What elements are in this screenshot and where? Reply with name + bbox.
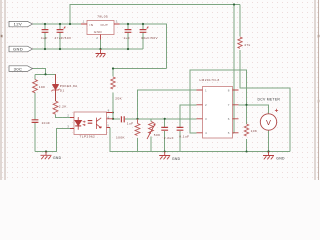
svg-text:1uF: 1uF: [124, 36, 131, 40]
svg-text:GND: GND: [172, 157, 181, 161]
junction (45.5,74.3): [44, 73, 46, 75]
svg-text:GND: GND: [13, 47, 23, 52]
junction (46,151.5): [45, 150, 47, 152]
wire 100R filter chain: [34, 74, 36, 151]
junction (128,49): [127, 48, 129, 50]
junction (60,24): [59, 23, 61, 25]
svg-text:100K: 100K: [116, 136, 126, 140]
capacitor C4 33uF/50V polarized: [140, 27, 149, 33]
resistor R4 100K: [135, 119, 140, 136]
junction (113,112.5): [112, 112, 114, 114]
wire 5V rail: [120, 24, 167, 69]
svg-text:30C: 30C: [14, 66, 23, 71]
opto phototransistor: [96, 118, 101, 129]
wire pin2 to 0.1uF chain: [180, 105, 197, 152]
wire opto pin5 to bottom rail: [110, 128, 290, 152]
junction (164.7,151.5): [164, 151, 166, 153]
svg-text:GND: GND: [53, 156, 62, 160]
ground symbol input: [41, 152, 52, 160]
svg-text:IN: IN: [90, 23, 94, 27]
wire 47k column to gnd: [240, 5, 290, 152]
svg-text:100: 100: [39, 85, 46, 89]
resistor R7 10K: [244, 124, 248, 136]
svg-text:12V: 12V: [14, 22, 23, 27]
ground symbol meter: [263, 152, 274, 160]
svg-text:10K: 10K: [251, 129, 258, 133]
capacitor C8 0.1uF: [177, 127, 184, 130]
capacitor C1 1uF: [42, 30, 49, 33]
wire 12V drop to pin8 and pin5: [233, 5, 235, 133]
wire C1 stubs: [44, 24, 46, 49]
svg-text:TLP2962: TLP2962: [80, 135, 96, 139]
svg-text:LM2917N-8: LM2917N-8: [200, 78, 220, 82]
capacitor C6 1uF coupling: [121, 116, 124, 122]
wire 5V feed left to opto pin8: [113, 69, 167, 119]
wire C4 stubs: [142, 24, 144, 49]
svg-text:V: V: [266, 118, 271, 127]
resistor R1 100: [33, 80, 38, 93]
junction (128,24): [127, 23, 129, 25]
svg-text:GND: GND: [94, 30, 103, 34]
wire zener to 2.2K to opto pin2: [56, 90, 71, 118]
wire C3 stubs: [127, 24, 129, 49]
svg-text:DCV METER: DCV METER: [258, 98, 281, 102]
svg-text:1uF: 1uF: [127, 122, 134, 126]
svg-text:P6KE6.8A: P6KE6.8A: [60, 84, 78, 88]
capacitor C5 10nF: [32, 120, 39, 123]
svg-text:GND: GND: [276, 157, 285, 161]
wire signal row to pin3: [113, 118, 197, 120]
IC U2 LM2917N-8: [197, 78, 239, 138]
wire opto pin3 return to gnd: [35, 129, 70, 152]
junction (246.5,104.8): [245, 104, 247, 106]
svg-text:33uF/50V: 33uF/50V: [141, 36, 159, 40]
regulator U1 78L05: [81, 14, 120, 40]
resistor R2 2.2K: [53, 101, 58, 114]
junction (45,49): [44, 48, 46, 50]
wire 100K stubs: [137, 138, 139, 152]
wires (green nets): [33, 5, 291, 152]
svg-text:0.1uF: 0.1uF: [179, 134, 189, 138]
svg-text:D1: D1: [60, 89, 65, 93]
capacitor C2 47uF/50V polarized: [57, 27, 66, 33]
svg-text:47uF/50V: 47uF/50V: [55, 36, 73, 40]
capacitor C7 2.2uF polarized: [161, 127, 168, 130]
input flag 30C: [9, 66, 33, 72]
svg-text:2.2uF: 2.2uF: [164, 136, 174, 140]
junction (234,4.5): [233, 3, 235, 5]
supply flag GND: [9, 46, 33, 52]
junction (246.5,151.5): [246, 151, 248, 153]
wire 2.2uF stubs: [164, 119, 166, 152]
wire 10K stubs: [246, 105, 248, 152]
frame borders: [1, 0, 318, 180]
wire GND rail: [33, 48, 144, 50]
wire pot stubs: [150, 119, 152, 152]
junction (268.5,151.5): [267, 150, 269, 152]
junction (100.5,49): [99, 48, 101, 50]
junction (164.7,118.8): [164, 118, 166, 120]
wire input flag node: [33, 69, 56, 80]
junction (70,24): [69, 23, 71, 25]
supply flag 12V: [9, 21, 33, 26]
svg-text:10nF: 10nF: [42, 121, 51, 125]
opto LED: [75, 117, 101, 130]
capacitor C3 1uF: [125, 30, 132, 33]
resistor R6 47k: [238, 37, 242, 48]
voltmeter M1: [260, 109, 278, 130]
svg-text:1uF: 1uF: [41, 36, 48, 40]
svg-text:2.2K: 2.2K: [59, 104, 68, 108]
wire 12V riser to top rail: [70, 5, 240, 25]
svg-text:20K: 20K: [115, 97, 122, 101]
svg-text:78L05: 78L05: [97, 14, 108, 18]
junction (137.5,118.8): [136, 118, 138, 120]
svg-text:50K: 50K: [154, 133, 161, 137]
optocoupler OK1 TLP2962: [67, 109, 113, 139]
junction (113,118.8): [112, 118, 114, 120]
zener diode D1 P6KE6.8A: [52, 74, 60, 101]
wire pin4 feedback loop over IC: [190, 70, 247, 133]
junction (60,49): [59, 48, 61, 50]
wire meter bottom rail: [268, 131, 270, 152]
potentiometer R5 50K: [147, 122, 155, 140]
resistor R3 20K: [112, 77, 114, 93]
junction (45,24): [44, 23, 46, 25]
wire C2 stubs: [59, 24, 61, 49]
ground symbol below regulator: [96, 49, 106, 57]
wire meter node: [239, 105, 269, 114]
ground symbol mid: [159, 152, 170, 160]
frame tick left: [1, 35, 3, 37]
junction (143,24): [142, 23, 144, 25]
frame tick right: [318, 35, 320, 37]
wire pin1 branch: [138, 90, 197, 119]
svg-text:47k: 47k: [244, 43, 250, 47]
wire regulator gnd drop: [100, 40, 102, 50]
svg-text:OUT: OUT: [101, 23, 109, 27]
wire 12V rail: [33, 23, 82, 25]
junction (113,68.5): [112, 67, 114, 69]
